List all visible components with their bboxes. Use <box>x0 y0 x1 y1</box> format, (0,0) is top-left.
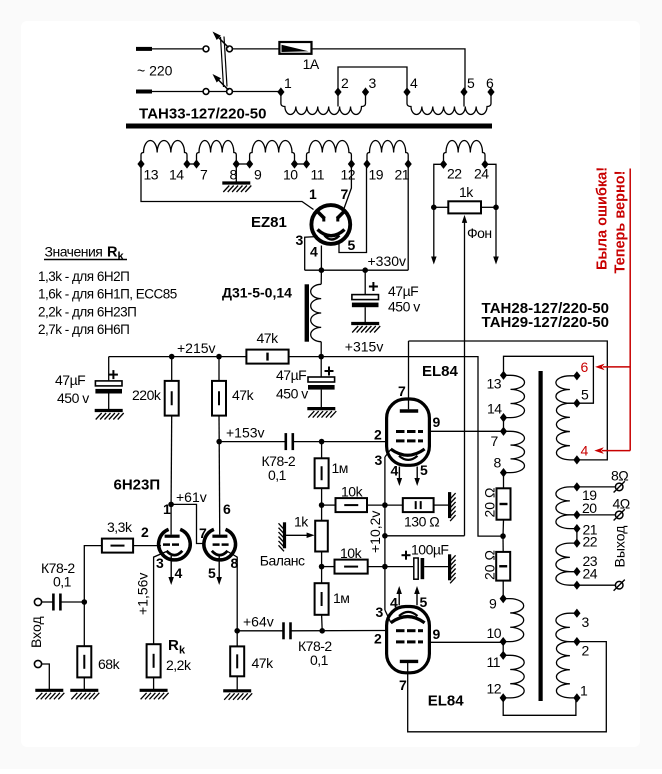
svg-text:9: 9 <box>433 414 441 430</box>
wire <box>233 48 280 50</box>
heater 4 arrow <box>170 556 172 578</box>
svg-text:7: 7 <box>399 677 407 693</box>
TAH33 primary winding 1-3 <box>281 92 366 115</box>
pin 19 <box>573 482 580 491</box>
pin 2 <box>573 637 580 646</box>
capacitor 47uF 450v (after choke) <box>320 357 322 377</box>
switch S1 arm lower <box>215 76 229 90</box>
svg-text:1: 1 <box>309 186 317 202</box>
svg-text:130 Ω: 130 Ω <box>404 514 439 530</box>
resistor 1m (lower) <box>315 583 329 615</box>
svg-text:Теперь верно!: Теперь верно! <box>613 171 629 274</box>
svg-text:6: 6 <box>486 75 494 91</box>
strap 10-11 <box>502 642 504 656</box>
pin 14 <box>500 413 507 422</box>
svg-text:10: 10 <box>283 167 298 183</box>
pin 7 <box>193 159 200 168</box>
TAH33 secondary winding 19-21 <box>367 140 408 164</box>
svg-text:450 v: 450 v <box>57 390 89 406</box>
output common <box>577 584 615 586</box>
wire grid feed <box>84 546 102 602</box>
svg-text:5: 5 <box>208 565 216 581</box>
EL84 lower envelope <box>387 607 430 673</box>
svg-text:1м: 1м <box>332 460 348 476</box>
wire <box>237 630 283 632</box>
svg-text:13: 13 <box>144 167 159 183</box>
wire <box>60 601 84 603</box>
EZ81 plate 1 <box>316 210 325 219</box>
OT winding 2-1 <box>556 642 576 698</box>
wire anode 6 down <box>218 442 221 529</box>
svg-text:3: 3 <box>376 604 384 620</box>
OT winding 7-8 <box>504 431 525 472</box>
capacitor 47uF 450v (rectifier) <box>364 270 366 294</box>
svg-text:2,7k - для 6Н6П: 2,7k - для 6Н6П <box>38 322 129 337</box>
svg-text:450 v: 450 v <box>276 386 308 402</box>
svg-text:+215v: +215v <box>177 340 216 356</box>
wire 8-9 <box>236 163 249 165</box>
heater 5 arrow <box>218 556 220 578</box>
OT core <box>539 371 543 701</box>
EL84 lower anode wire <box>408 642 607 732</box>
svg-text:Выход: Выход <box>612 526 628 568</box>
svg-text:2,2k - для 6Н23П: 2,2k - для 6Н23П <box>38 304 136 319</box>
svg-text:+1,56v: +1,56v <box>135 573 151 615</box>
pin 10 <box>291 159 298 168</box>
switch S1 contact <box>227 89 233 95</box>
svg-text:8: 8 <box>231 555 239 571</box>
svg-text:12: 12 <box>341 167 356 183</box>
wire <box>321 552 323 584</box>
wire 10-11 <box>295 163 307 165</box>
EL84 upper anode wire to pin 4 <box>409 341 608 460</box>
svg-text:47k: 47k <box>252 655 275 671</box>
wire anode1 to grid7 <box>171 504 205 543</box>
wire +153v <box>219 441 285 443</box>
pin 23 <box>573 567 580 576</box>
svg-text:ТАН33-127/220-50: ТАН33-127/220-50 <box>139 106 266 123</box>
wire <box>41 664 49 689</box>
svg-text:14: 14 <box>487 401 502 417</box>
EL84 upper anode <box>408 341 410 409</box>
pin 11 <box>303 159 310 168</box>
svg-text:20 Ω: 20 Ω <box>482 488 498 518</box>
wire <box>152 91 281 93</box>
svg-text:5: 5 <box>348 237 356 253</box>
svg-text:11: 11 <box>487 654 501 670</box>
OT winding 23-24 <box>556 572 577 586</box>
svg-text:0,1: 0,1 <box>268 467 287 483</box>
pin 1 <box>277 87 284 96</box>
capacitor 47uF 450v (input filter) <box>108 357 110 381</box>
switch S1 linkage <box>221 37 224 87</box>
mains terminal stub upper <box>136 47 152 51</box>
svg-text:4: 4 <box>310 244 318 260</box>
svg-text:19: 19 <box>369 167 384 183</box>
svg-text:47µF: 47µF <box>55 372 85 388</box>
EL84 lower screen grid <box>396 640 405 643</box>
svg-text:2: 2 <box>341 75 349 91</box>
svg-text:20: 20 <box>582 500 597 516</box>
pin 6 <box>573 371 580 380</box>
svg-text:Фон: Фон <box>467 225 492 241</box>
svg-text:5: 5 <box>420 462 428 478</box>
wire <box>289 356 322 358</box>
EL84 lower cathode wire <box>385 610 391 622</box>
svg-text:R: R <box>107 245 118 261</box>
wire 14-7 <box>187 163 197 165</box>
svg-text:+330v: +330v <box>368 253 407 269</box>
resistor 10k (lower) <box>322 566 335 568</box>
pin 24 <box>481 160 488 169</box>
pin 13 <box>137 159 144 168</box>
wire <box>152 48 203 50</box>
svg-text:10k: 10k <box>341 484 364 500</box>
resistor 3,3k <box>102 539 133 553</box>
pin 8 <box>233 159 240 168</box>
EL84 upper screen wire <box>429 430 503 432</box>
resistor 47k (bus) <box>246 350 288 364</box>
TAH33 secondary winding 9-10 <box>250 141 295 165</box>
pin 2 <box>334 87 341 96</box>
6N23P triode B envelope <box>204 529 236 559</box>
svg-text:3: 3 <box>369 75 377 91</box>
svg-text:3: 3 <box>296 232 304 248</box>
strap 21-22 <box>576 529 578 544</box>
resistor 1m (upper) <box>315 458 329 488</box>
svg-text:11: 11 <box>311 167 325 183</box>
svg-text:5: 5 <box>420 594 428 610</box>
TAH33 secondary winding 13-14 <box>141 140 187 164</box>
pin 9 <box>246 159 253 168</box>
svg-text:14: 14 <box>169 167 184 183</box>
capacitor K78-2 0,1 (input) <box>52 594 55 611</box>
svg-text:7: 7 <box>200 167 208 183</box>
resistor 47k (bottom) <box>236 631 238 647</box>
pin 14 <box>183 159 190 168</box>
pin 5 <box>460 87 467 96</box>
6N23P triode A grid <box>163 543 170 546</box>
bridge wire pins 2-4 <box>338 67 407 92</box>
svg-text:5: 5 <box>581 387 589 403</box>
+330v bus <box>305 269 409 271</box>
pin 5 <box>573 399 580 408</box>
svg-text:1: 1 <box>284 75 292 91</box>
pin 12 <box>500 693 507 702</box>
svg-text:2: 2 <box>582 643 590 659</box>
OT winding 6-5 <box>556 376 577 403</box>
wire fuse to pin5 <box>312 49 466 92</box>
wire pin24 right <box>485 164 496 258</box>
svg-text:Д31-5-0,14: Д31-5-0,14 <box>222 285 292 301</box>
EZ81 pin 5 heater wire <box>339 164 367 253</box>
pot wiper to cathodes <box>464 219 466 536</box>
B+ bus wire <box>109 356 247 358</box>
wire 47k down <box>218 416 220 442</box>
svg-text:1: 1 <box>163 501 171 517</box>
wire to EL84 grid <box>293 441 387 443</box>
heater 5 arrow (upper EL84) <box>416 467 418 480</box>
wire <box>321 442 323 459</box>
EL84 upper cathode <box>391 449 425 455</box>
resistor 68k <box>83 602 85 646</box>
svg-text:6: 6 <box>581 359 589 375</box>
resistor Rk 2,2k <box>147 644 161 677</box>
pin 9 <box>500 594 507 603</box>
wire <box>481 206 496 208</box>
svg-text:Баланс: Баланс <box>260 553 305 569</box>
heater 4 arrow (lower EL84) <box>398 593 400 605</box>
svg-text:3: 3 <box>375 452 383 468</box>
svg-text:0,1: 0,1 <box>310 652 329 668</box>
pin 3 <box>362 87 369 96</box>
svg-text:10: 10 <box>487 625 502 641</box>
OT winding 20-21 <box>556 515 577 529</box>
svg-text:4: 4 <box>175 565 183 581</box>
svg-text:+315v: +315v <box>345 339 384 355</box>
svg-text:9: 9 <box>489 596 497 612</box>
fuse F1 1A <box>279 42 311 54</box>
resistor 10k (upper) <box>322 504 336 506</box>
pin 11 <box>500 651 507 660</box>
EZ81 envelope <box>311 205 350 244</box>
choke L1 winding <box>311 284 322 341</box>
TAH33 primary winding 4-6 <box>407 92 491 115</box>
switch S1 contact <box>203 46 209 52</box>
svg-text:ТАН29-127/220-50: ТАН29-127/220-50 <box>482 314 609 331</box>
svg-text:EL84: EL84 <box>428 693 465 710</box>
svg-text:47k: 47k <box>257 330 280 346</box>
wire B+ to screens <box>321 357 503 536</box>
wire to grid <box>133 545 161 547</box>
6N23P triode B grid <box>213 543 220 546</box>
svg-text:8Ω: 8Ω <box>611 468 628 484</box>
wire pin21 down <box>407 164 409 270</box>
svg-text:1м: 1м <box>333 590 349 606</box>
pin 22 <box>573 539 580 548</box>
svg-text:0,1: 0,1 <box>53 574 72 590</box>
svg-text:9: 9 <box>433 626 441 642</box>
svg-text:+153v: +153v <box>226 425 265 441</box>
svg-text:EL84: EL84 <box>422 363 459 380</box>
hum pot wiper link <box>385 535 465 537</box>
svg-text:2: 2 <box>374 427 382 443</box>
EL84 lower cathode <box>391 617 425 623</box>
6N23P triode A cathode <box>167 551 183 555</box>
svg-text:5: 5 <box>467 75 475 91</box>
wire pin12 to EZ81 anode <box>344 164 351 209</box>
pin 1 <box>573 693 580 702</box>
svg-text:22: 22 <box>583 534 598 550</box>
pin 3 <box>573 609 580 618</box>
svg-text:4: 4 <box>581 443 589 459</box>
wire <box>321 615 324 631</box>
svg-text:1k: 1k <box>459 184 474 200</box>
svg-text:4Ω: 4Ω <box>613 496 630 512</box>
input terminal lower <box>34 660 41 667</box>
svg-text:2,2k: 2,2k <box>166 657 192 673</box>
svg-text:9: 9 <box>254 167 262 183</box>
svg-text:Была ошибка!: Была ошибка! <box>595 167 611 270</box>
resistor 20 Ohm (lower) <box>496 552 510 581</box>
wire to EL84 grid <box>291 630 387 632</box>
svg-text:47k: 47k <box>232 387 255 403</box>
svg-text:12: 12 <box>487 681 502 697</box>
heater 4 arrow (upper EL84) <box>398 467 400 480</box>
svg-text:22: 22 <box>447 166 462 182</box>
wire pin13 strap <box>504 356 594 403</box>
capacitor K78-2 0,1 (lower) <box>282 622 285 639</box>
TAH33 secondary winding 22-24 <box>444 140 486 164</box>
OT winding 22-23 <box>556 543 577 572</box>
resistor 47k (left) <box>218 357 220 381</box>
pin 7 <box>500 427 507 436</box>
svg-text:8: 8 <box>494 455 502 471</box>
pin 3 cathode wire <box>154 552 167 645</box>
wire bus pin13 to EZ81 anode <box>141 164 314 210</box>
switch S1 contact <box>203 89 209 95</box>
svg-text:220k: 220k <box>132 387 162 403</box>
pin 8 <box>500 468 507 477</box>
svg-text:1k: 1k <box>294 514 309 530</box>
svg-text:47µF: 47µF <box>276 367 306 383</box>
svg-text:13: 13 <box>487 376 502 392</box>
OT winding 9-10 <box>503 599 523 642</box>
EZ81 cathode <box>318 230 345 236</box>
pin 13 <box>500 371 507 380</box>
wire <box>434 206 449 208</box>
wire <box>41 601 53 603</box>
capacitor 100uF <box>402 554 411 556</box>
pin 12 <box>348 159 355 168</box>
svg-text:21: 21 <box>395 167 410 183</box>
resistor 220k <box>171 357 173 381</box>
svg-text:6: 6 <box>223 501 231 517</box>
capacitor K78-2 0.1 (upper) <box>284 433 287 450</box>
pin 8 cathode wire <box>228 552 238 631</box>
OT winding 5-4 <box>556 403 576 460</box>
6N23P triode A envelope <box>159 529 191 559</box>
EZ81 plate 7 <box>337 210 346 219</box>
svg-text:4: 4 <box>390 595 398 611</box>
wire pin22 left <box>434 164 444 258</box>
svg-text:1,6k - для 6Н1П, ECC85: 1,6k - для 6Н1П, ECC85 <box>38 287 177 302</box>
svg-text:20 Ω: 20 Ω <box>482 550 498 580</box>
wire <box>321 488 323 521</box>
svg-text:3: 3 <box>582 614 590 630</box>
OT winding 13-14 <box>504 375 525 417</box>
svg-text:2: 2 <box>141 524 149 540</box>
OT winding 3-2 <box>556 613 577 641</box>
svg-text:24: 24 <box>583 566 598 582</box>
6N23P triode B cathode <box>212 551 228 555</box>
pin 22 <box>440 160 447 169</box>
ground at pin 8 <box>235 164 237 182</box>
svg-text:100µF: 100µF <box>411 542 448 558</box>
mains terminal stub lower <box>136 90 152 94</box>
red arrow to 4 <box>602 450 630 452</box>
TAH33 primary tap 2 drop <box>337 92 339 107</box>
pot Balans 1k <box>315 521 328 552</box>
EL84 upper envelope <box>387 399 430 465</box>
pin 4 <box>573 455 580 464</box>
svg-text:1,3k - для 6Н2П: 1,3k - для 6Н2П <box>38 269 129 284</box>
svg-text:24: 24 <box>474 166 489 182</box>
svg-text:47µF: 47µF <box>388 283 418 299</box>
red arrow to 6 <box>603 366 630 368</box>
TAH33 core <box>126 124 492 129</box>
svg-text:4: 4 <box>410 75 418 91</box>
svg-text:7: 7 <box>398 383 406 399</box>
svg-text:1: 1 <box>580 683 588 699</box>
svg-text:+10,2v: +10,2v <box>367 511 383 553</box>
pin 20 <box>573 510 580 519</box>
EL84 upper screen grid <box>396 430 405 433</box>
OT winding 11-12 <box>503 655 524 698</box>
svg-text:k: k <box>179 645 186 657</box>
svg-text:Значения: Значения <box>45 244 103 260</box>
svg-text:+61v: +61v <box>176 489 207 505</box>
svg-text:68k: 68k <box>98 656 121 672</box>
wire pin12 to pin1 <box>503 698 576 715</box>
svg-text:450 v: 450 v <box>388 299 420 315</box>
6N23P triode A anode <box>170 504 172 534</box>
wire 220k to 6N23P anode <box>170 416 173 505</box>
EL84 lower anode <box>400 660 418 663</box>
svg-text:2: 2 <box>374 631 382 647</box>
pin 6 <box>487 87 494 96</box>
svg-text:3: 3 <box>156 555 164 571</box>
Balans wiper <box>283 522 286 548</box>
pot R-hum 1k <box>448 201 481 213</box>
strap 14-7 <box>503 418 505 432</box>
resistor 20 Ohm (upper) <box>503 473 505 489</box>
svg-text:+64v: +64v <box>243 614 274 630</box>
output 4 Ohm <box>577 514 615 516</box>
TAH33 secondary winding 7-8 <box>197 141 237 165</box>
svg-text:10k: 10k <box>340 545 363 561</box>
EL84 lower screen wire <box>429 641 503 643</box>
EL84 upper control grid <box>396 439 405 442</box>
6N23P triode B anode <box>219 529 221 535</box>
svg-text:Вход: Вход <box>28 616 44 648</box>
svg-text:1А: 1А <box>303 56 320 72</box>
pin 4 <box>403 87 410 96</box>
svg-text:4: 4 <box>391 463 399 479</box>
svg-text:k: k <box>118 251 125 263</box>
resistor 130 Ohm <box>385 504 403 506</box>
choke L1 core <box>305 284 309 341</box>
pin 24 <box>573 581 580 590</box>
svg-text:7: 7 <box>341 186 349 202</box>
TAH33 secondary winding 11-12 <box>307 141 352 165</box>
cathode bus <box>384 457 386 610</box>
red wire <box>629 169 631 451</box>
EL84 upper cathode wire <box>385 450 391 458</box>
svg-text:R: R <box>168 637 179 654</box>
heater 5 arrow (lower EL84) <box>416 593 418 605</box>
svg-text:~ 220: ~ 220 <box>137 63 173 79</box>
pin 19 <box>363 159 370 168</box>
EZ81 heater arc <box>325 236 340 240</box>
pin 21 <box>405 159 412 168</box>
svg-text:3,3k: 3,3k <box>107 519 133 535</box>
svg-text:6Н23П: 6Н23П <box>114 477 161 494</box>
pin 21 <box>573 524 580 533</box>
TAH33 primary tap 5 drop <box>463 92 465 107</box>
EZ81 pin 4 heater wire <box>320 246 322 271</box>
switch S1 contact <box>227 46 233 52</box>
